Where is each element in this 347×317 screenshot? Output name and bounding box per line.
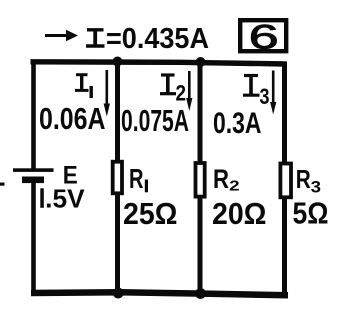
wire branch R2 lower (198, 196, 203, 293)
svg-text:25Ω: 25Ω (123, 196, 178, 231)
svg-text:3: 3 (260, 84, 270, 109)
junction node bottom at R1 branch (113, 288, 124, 299)
svg-text:0.06A: 0.06A (39, 101, 106, 136)
svg-text:0.075A: 0.075A (121, 103, 189, 138)
label R1 (129, 163, 148, 194)
label E (63, 162, 78, 190)
value 0.06A (39, 101, 106, 136)
svg-text:=0.435A: =0.435A (106, 23, 209, 55)
wire top bus (31, 62, 287, 64)
figure number box 6 (top right) (240, 17, 286, 56)
value 25 Ohm (123, 196, 178, 231)
label R3 (296, 164, 321, 197)
svg-text:0.3A: 0.3A (213, 107, 262, 140)
wire left (battery branch, lower segment) (31, 183, 36, 293)
wire branch R2 upper (198, 62, 203, 163)
svg-text:2: 2 (176, 81, 187, 106)
resistor R1 (box) (113, 162, 122, 194)
svg-text:20Ω: 20Ω (212, 196, 267, 231)
svg-text:R: R (296, 164, 311, 194)
wire right (R3 branch, lower segment) (282, 197, 287, 295)
svg-text:6: 6 (249, 17, 279, 56)
arrow for total current I (top, pointing right) (45, 30, 78, 41)
svg-text:2: 2 (229, 178, 240, 195)
label I=0.435A (serif I drawn custom) (86, 23, 209, 55)
wire branch R1 lower (115, 193, 120, 292)
wire bottom bus (31, 292, 288, 295)
value 0.3A (213, 107, 262, 140)
wire right (R3 branch, upper segment) (282, 62, 287, 164)
arrow for I1 (down) (104, 70, 110, 117)
junction node top at R1 branch (113, 57, 123, 67)
battery E (cell: long thin plus plate, short thick minus plate) (13, 168, 54, 183)
svg-text:R: R (213, 164, 229, 194)
junction node top at R2 branch (196, 57, 206, 67)
wire branch R1 upper (115, 62, 120, 161)
label I1 (serif I with subscript) (75, 75, 93, 98)
value 0.075A (121, 103, 189, 138)
label R2 (213, 164, 240, 195)
arrow for I3 (down) (270, 71, 276, 115)
label I3 (serif I with subscript) (243, 76, 270, 110)
resistor R2 (box) (196, 163, 205, 197)
label I2 (serif I with subscript) (160, 75, 186, 106)
junction node bottom at R2 branch (195, 288, 206, 299)
svg-text:R: R (129, 163, 144, 194)
value 1.5V (40, 184, 85, 214)
value 5 Ohm (293, 196, 329, 231)
svg-text:5Ω: 5Ω (293, 196, 329, 231)
svg-text:.5V: .5V (45, 184, 85, 214)
resistor R3 (box) (280, 164, 291, 198)
svg-text:3: 3 (311, 179, 321, 197)
wire left (battery branch, upper segment) (31, 60, 36, 169)
value 20 Ohm (212, 196, 267, 231)
scan artifact: dash at left edge (0, 183, 5, 186)
arrow for I2 (down) (186, 71, 192, 111)
